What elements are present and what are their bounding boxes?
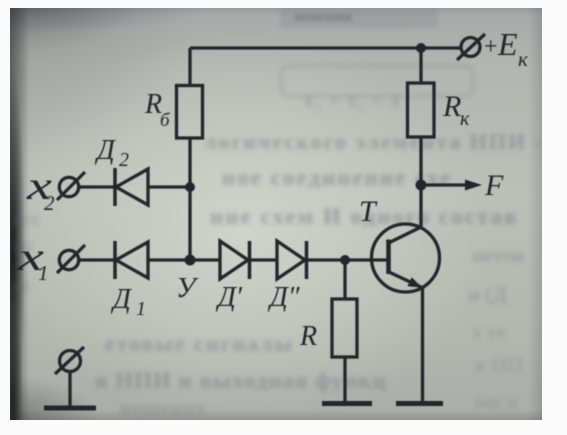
junction dot: rail to Rk [416,43,426,53]
wire: junction down to R [343,260,346,299]
terminal: unused ground input (bottom left) [55,347,84,374]
label x2 [26,163,55,215]
transistor T [372,224,440,292]
svg-text:R: R [299,321,317,352]
wire: D'' to transistor base [307,258,388,261]
diode D1 [115,241,148,279]
wire: D' to D'' [250,258,278,261]
wire: rail down to Rk [419,48,422,83]
terminal x1 [57,245,85,273]
svg-text:Д: Д [94,135,117,166]
svg-text:к: к [518,47,528,71]
label +Ek [484,26,528,71]
svg-text:1: 1 [136,298,146,320]
wire: R down to ground [343,357,346,402]
ground bottom-left [44,406,96,411]
wire: x1 to D1 [80,258,115,261]
svg-text:Д″: Д″ [267,282,300,313]
label Rb [144,89,171,131]
junction dot: D2 wire joins [185,182,195,192]
svg-text:2: 2 [44,191,55,215]
arrow to output F [421,180,482,191]
wire: Rb down to node U [188,138,191,260]
terminal +Ek (circle with slash) [457,34,485,60]
ground under emitter [396,401,443,406]
resistor R [332,299,357,357]
wire: terminal down to ground bar [68,372,71,407]
svg-text:У: У [176,272,199,304]
svg-text:Д′: Д′ [215,282,243,313]
label D2 [94,135,129,171]
terminal x2 [57,172,85,200]
svg-text:1: 1 [38,261,49,285]
wire: collector up to F junction and Rk [419,138,422,229]
svg-text:б: б [160,110,171,131]
wire: x2 to D2 [80,185,115,188]
svg-text:F: F [484,169,504,202]
svg-text:к: к [460,108,470,130]
label R [299,321,317,352]
svg-text:+: + [484,34,498,60]
label D1 [110,284,146,320]
svg-text:R: R [442,90,461,123]
label D' [215,282,243,313]
resistor Rb [177,86,203,139]
diode D2 [115,168,148,206]
diode D' [220,241,250,279]
label F [484,169,504,202]
node U junction dot [185,255,196,266]
wire: rail down to Rb [188,48,191,86]
label U [176,272,199,304]
blurred page text (out of focus background) [280,9,438,28]
label T [359,195,378,228]
label Rk [442,90,470,130]
svg-text:T: T [359,195,378,228]
svg-text:E: E [497,26,518,62]
svg-text:Д: Д [110,284,133,315]
resistor Rk [408,83,435,137]
junction dot F [416,180,427,191]
ground under R [322,401,372,406]
diode D'' [277,241,307,279]
wire: D1 to node U [148,258,190,261]
wire: top supply rail [190,46,460,49]
wire: D2 to junction [148,185,190,188]
label D'' [267,282,300,313]
wire: emitter down to ground [421,287,424,402]
label x1 [17,234,49,285]
junction dot: base / R [340,255,350,265]
wire: U to D' [190,258,220,261]
svg-text:2: 2 [119,149,129,171]
